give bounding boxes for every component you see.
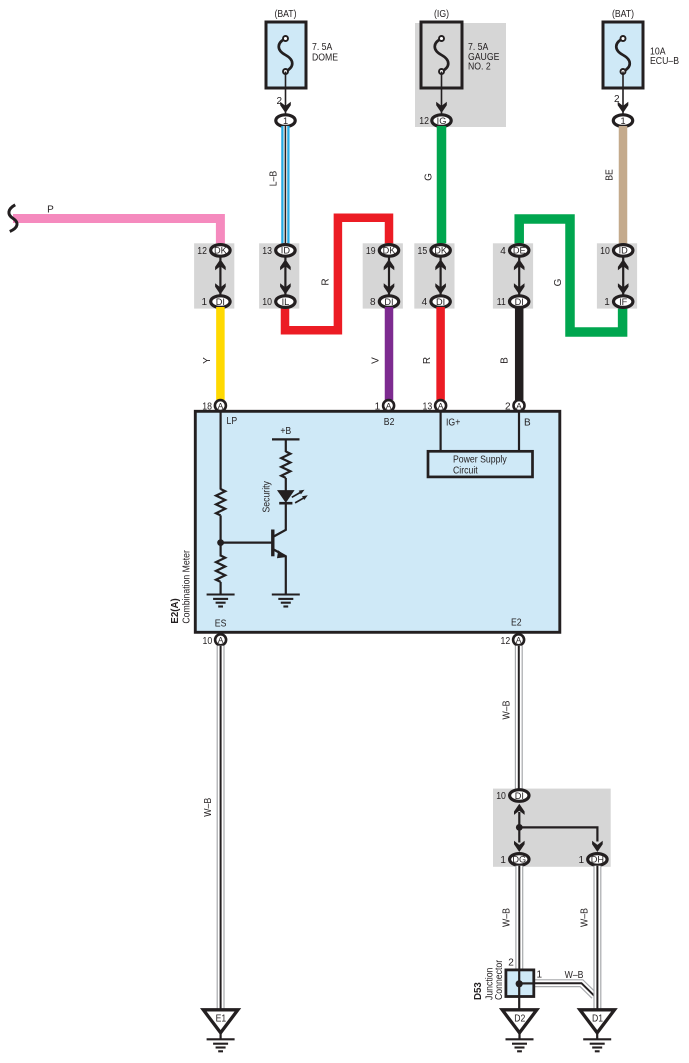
- node junction dot: [217, 539, 224, 546]
- svg-text:Power Supply: Power Supply: [453, 455, 507, 466]
- wire to LED: [285, 478, 287, 491]
- wire DI to junction: [518, 812, 520, 827]
- svg-text:1: 1: [620, 116, 625, 126]
- arrow into connector (ECU-B): [618, 102, 629, 113]
- ground point D2: [502, 1010, 537, 1033]
- svg-text:1: 1: [578, 855, 584, 866]
- fuse GAUGE symbol: [435, 36, 449, 74]
- fuse ECU-B symbol: [616, 36, 630, 74]
- connector oval 1 (DOME): [276, 115, 295, 127]
- wire W-B (junction connector to D1, horizontal): [534, 983, 595, 996]
- svg-text:DH: DH: [591, 855, 604, 865]
- meter pin 10 A (ES): [215, 634, 226, 645]
- ground point E1: [203, 1010, 238, 1033]
- svg-text:A: A: [218, 401, 224, 411]
- svg-text:NO. 2: NO. 2: [468, 62, 491, 73]
- svg-text:B: B: [500, 357, 511, 364]
- arrow down into DG: [514, 841, 525, 852]
- svg-text:W–B: W–B: [565, 970, 584, 981]
- svg-text:1: 1: [375, 402, 381, 413]
- wire P (pink) from instrument panel: [13, 219, 220, 246]
- meter pin 18 A (LP): [215, 400, 226, 411]
- svg-text:W–B: W–B: [502, 908, 513, 927]
- connector pair 4 DE / 11 DI: [493, 243, 533, 308]
- wire IG+ to power supply: [440, 412, 442, 452]
- wire Y (yellow): [216, 307, 225, 400]
- svg-text:15: 15: [418, 246, 428, 257]
- junction connector D53: [506, 970, 534, 997]
- svg-text:DI: DI: [384, 297, 393, 307]
- svg-text:10: 10: [203, 636, 213, 647]
- svg-text:12: 12: [419, 116, 429, 127]
- svg-text:DK: DK: [434, 246, 448, 256]
- svg-text:E2(A): E2(A): [170, 598, 181, 623]
- transistor Q1 emitter with arrow: [273, 549, 286, 595]
- resistor R1 (LP divider upper): [216, 489, 225, 515]
- svg-text:2: 2: [505, 402, 511, 413]
- LED D (Security): [277, 490, 295, 503]
- svg-text:DI: DI: [436, 297, 445, 307]
- svg-text:A: A: [438, 401, 444, 411]
- svg-text:ID: ID: [619, 246, 629, 256]
- svg-text:P: P: [47, 205, 54, 216]
- wire LP internal: [220, 412, 222, 490]
- fuse ECU-B body: [603, 22, 643, 88]
- connector oval 1 DG: [510, 854, 529, 866]
- svg-text:A: A: [386, 401, 392, 411]
- wire V (violet): [385, 307, 394, 400]
- D53 internal wire (pin 2 to node): [518, 970, 520, 984]
- resistor R3 (LED series): [281, 452, 290, 478]
- svg-text:4: 4: [422, 297, 428, 308]
- wire start squiggle: [9, 205, 17, 232]
- ground (internal right): [272, 595, 300, 607]
- svg-text:DE: DE: [513, 246, 526, 256]
- wire W-B (E2 down): [515, 646, 523, 790]
- svg-text:10: 10: [600, 246, 610, 257]
- gray harness box (DI/DG/DH): [493, 789, 611, 867]
- transistor Q1 collector: [273, 502, 286, 537]
- svg-text:8: 8: [370, 297, 376, 308]
- resistor R2 (LP divider lower): [216, 556, 225, 582]
- wire B to power supply: [518, 412, 520, 452]
- svg-text:1: 1: [537, 970, 543, 981]
- svg-text:13: 13: [262, 246, 272, 257]
- svg-text:IG+: IG+: [446, 418, 460, 429]
- fuse DOME body: [266, 22, 306, 88]
- arrow up into DI: [514, 804, 525, 815]
- svg-text:(BAT): (BAT): [274, 9, 296, 20]
- ground symbol E1: [207, 1039, 235, 1051]
- svg-text:DK: DK: [214, 246, 228, 256]
- svg-text:A: A: [516, 401, 522, 411]
- pin 12 of fuse GAUGE: [441, 72, 443, 115]
- svg-text:DI: DI: [515, 791, 524, 801]
- svg-text:4: 4: [500, 246, 506, 257]
- connector oval 1 (ECU-B): [613, 115, 632, 127]
- svg-text:ID: ID: [281, 246, 291, 256]
- arrow into connector (GAUGE): [436, 102, 447, 113]
- svg-text:DI: DI: [515, 297, 524, 307]
- connector pair 10 ID / 1 IF: [597, 243, 637, 308]
- svg-text:D1: D1: [592, 1014, 603, 1025]
- svg-text:IG: IG: [437, 116, 447, 126]
- meter pin 12 A (E2): [513, 634, 524, 645]
- svg-text:Security: Security: [262, 481, 273, 512]
- svg-text:1: 1: [604, 297, 610, 308]
- svg-text:(BAT): (BAT): [612, 9, 634, 20]
- connector pair 15 DK / 4 DI: [414, 243, 454, 308]
- svg-text:12: 12: [501, 636, 511, 647]
- svg-text:B2: B2: [384, 417, 395, 428]
- svg-text:D2: D2: [514, 1014, 525, 1025]
- svg-text:W–B: W–B: [580, 908, 591, 927]
- wire G (green) loop from IF to DE: [519, 219, 622, 332]
- wire G (green) from IG fuse: [437, 126, 447, 245]
- pin 2 of fuse ECU-B: [622, 72, 624, 115]
- svg-text:Y: Y: [202, 357, 213, 364]
- svg-text:1: 1: [201, 297, 207, 308]
- svg-text:+B: +B: [280, 426, 291, 437]
- ground point D1: [580, 1010, 615, 1033]
- connector oval 10 DI: [510, 790, 529, 802]
- node junction dot: [516, 824, 523, 831]
- connector pair 13 ID / 10 IL: [259, 243, 299, 308]
- svg-text:1: 1: [500, 855, 506, 866]
- wire to ground ES: [220, 582, 222, 595]
- wire W-B (DG to D53): [515, 866, 523, 985]
- wire to junction: [220, 515, 222, 556]
- connector pair 12 DK / 1 DI: [194, 243, 234, 308]
- svg-text:ES: ES: [215, 619, 227, 630]
- svg-text:DOME: DOME: [312, 53, 338, 64]
- svg-text:E1: E1: [216, 1014, 227, 1025]
- svg-text:IL: IL: [282, 297, 290, 307]
- svg-text:V: V: [371, 357, 382, 364]
- fuse GAUGE NO.2 body: [421, 22, 462, 88]
- svg-text:Connector: Connector: [494, 959, 505, 1000]
- svg-text:12: 12: [197, 246, 207, 257]
- svg-text:Combination Meter: Combination Meter: [182, 550, 193, 624]
- gray harness box (GAUGE fuse): [415, 23, 506, 127]
- svg-text:R: R: [321, 278, 332, 285]
- fuse DOME symbol: [279, 36, 293, 74]
- svg-text:A: A: [516, 635, 522, 645]
- wire junction to DG: [518, 827, 520, 842]
- transistor Q1 base bar: [271, 530, 274, 557]
- svg-text:BE: BE: [605, 169, 616, 181]
- wire R (red) loop from IL to DK: [285, 218, 389, 331]
- svg-text:L–B: L–B: [269, 170, 280, 186]
- svg-text:A: A: [218, 635, 224, 645]
- svg-text:DK: DK: [383, 246, 397, 256]
- meter pin 1 A (B2): [383, 400, 394, 411]
- connector pair 19 DK / 8 DI: [363, 243, 403, 308]
- wire junction to DH branch: [519, 827, 597, 841]
- svg-text:11: 11: [497, 297, 506, 308]
- pin 2 of fuse DOME: [285, 72, 287, 115]
- svg-text:DG: DG: [512, 855, 526, 865]
- combination meter box E2(A): [195, 411, 560, 632]
- svg-text:DI: DI: [216, 297, 225, 307]
- svg-text:E2: E2: [511, 618, 522, 629]
- D53 internal wire (node to pin 1): [519, 982, 534, 984]
- svg-text:7. 5A: 7. 5A: [312, 42, 333, 53]
- svg-text:(IG): (IG): [434, 9, 449, 20]
- svg-text:R: R: [422, 357, 433, 364]
- arrow into connector (DOME): [280, 102, 291, 113]
- svg-text:10: 10: [262, 297, 272, 308]
- wire W-B (DH to D1): [593, 866, 601, 1011]
- wire B (black): [515, 307, 524, 400]
- meter pin 13 A (IG+): [435, 400, 446, 411]
- arrow down into DH: [592, 841, 603, 852]
- connector oval IG: [432, 115, 451, 127]
- ground (internal left): [207, 595, 235, 607]
- wire D53 to D2: [518, 984, 520, 1011]
- svg-text:10: 10: [496, 791, 506, 802]
- ground symbol D2: [506, 1039, 534, 1051]
- svg-text:Circuit: Circuit: [453, 466, 478, 477]
- svg-text:D53: D53: [473, 982, 484, 1000]
- LED emission arrows: [292, 490, 308, 503]
- svg-text:ECU–B: ECU–B: [650, 56, 679, 67]
- svg-text:13: 13: [423, 402, 433, 413]
- svg-text:19: 19: [366, 246, 376, 257]
- ground symbol D1: [583, 1039, 611, 1051]
- svg-text:18: 18: [202, 402, 212, 413]
- svg-text:G: G: [553, 278, 564, 286]
- wire W-B (ES to E1): [217, 646, 225, 1011]
- svg-text:W–B: W–B: [203, 798, 214, 817]
- svg-text:G: G: [424, 173, 435, 181]
- wire BE (beige) from ECU-B fuse: [619, 126, 628, 245]
- wire R (red) to IG+: [436, 307, 445, 400]
- meter pin 2 A (B): [514, 400, 525, 411]
- wire base: [221, 541, 272, 543]
- svg-text:W–B: W–B: [501, 700, 512, 719]
- svg-text:LP: LP: [227, 416, 238, 427]
- wire L-B (blue/black): [281, 126, 289, 245]
- D53 internal node dot: [516, 980, 523, 987]
- svg-text:1: 1: [283, 116, 288, 126]
- power supply circuit box: [428, 451, 533, 477]
- svg-text:2: 2: [508, 958, 514, 969]
- svg-text:IF: IF: [619, 297, 628, 307]
- svg-text:B: B: [524, 418, 531, 429]
- connector oval 1 DH: [588, 854, 607, 866]
